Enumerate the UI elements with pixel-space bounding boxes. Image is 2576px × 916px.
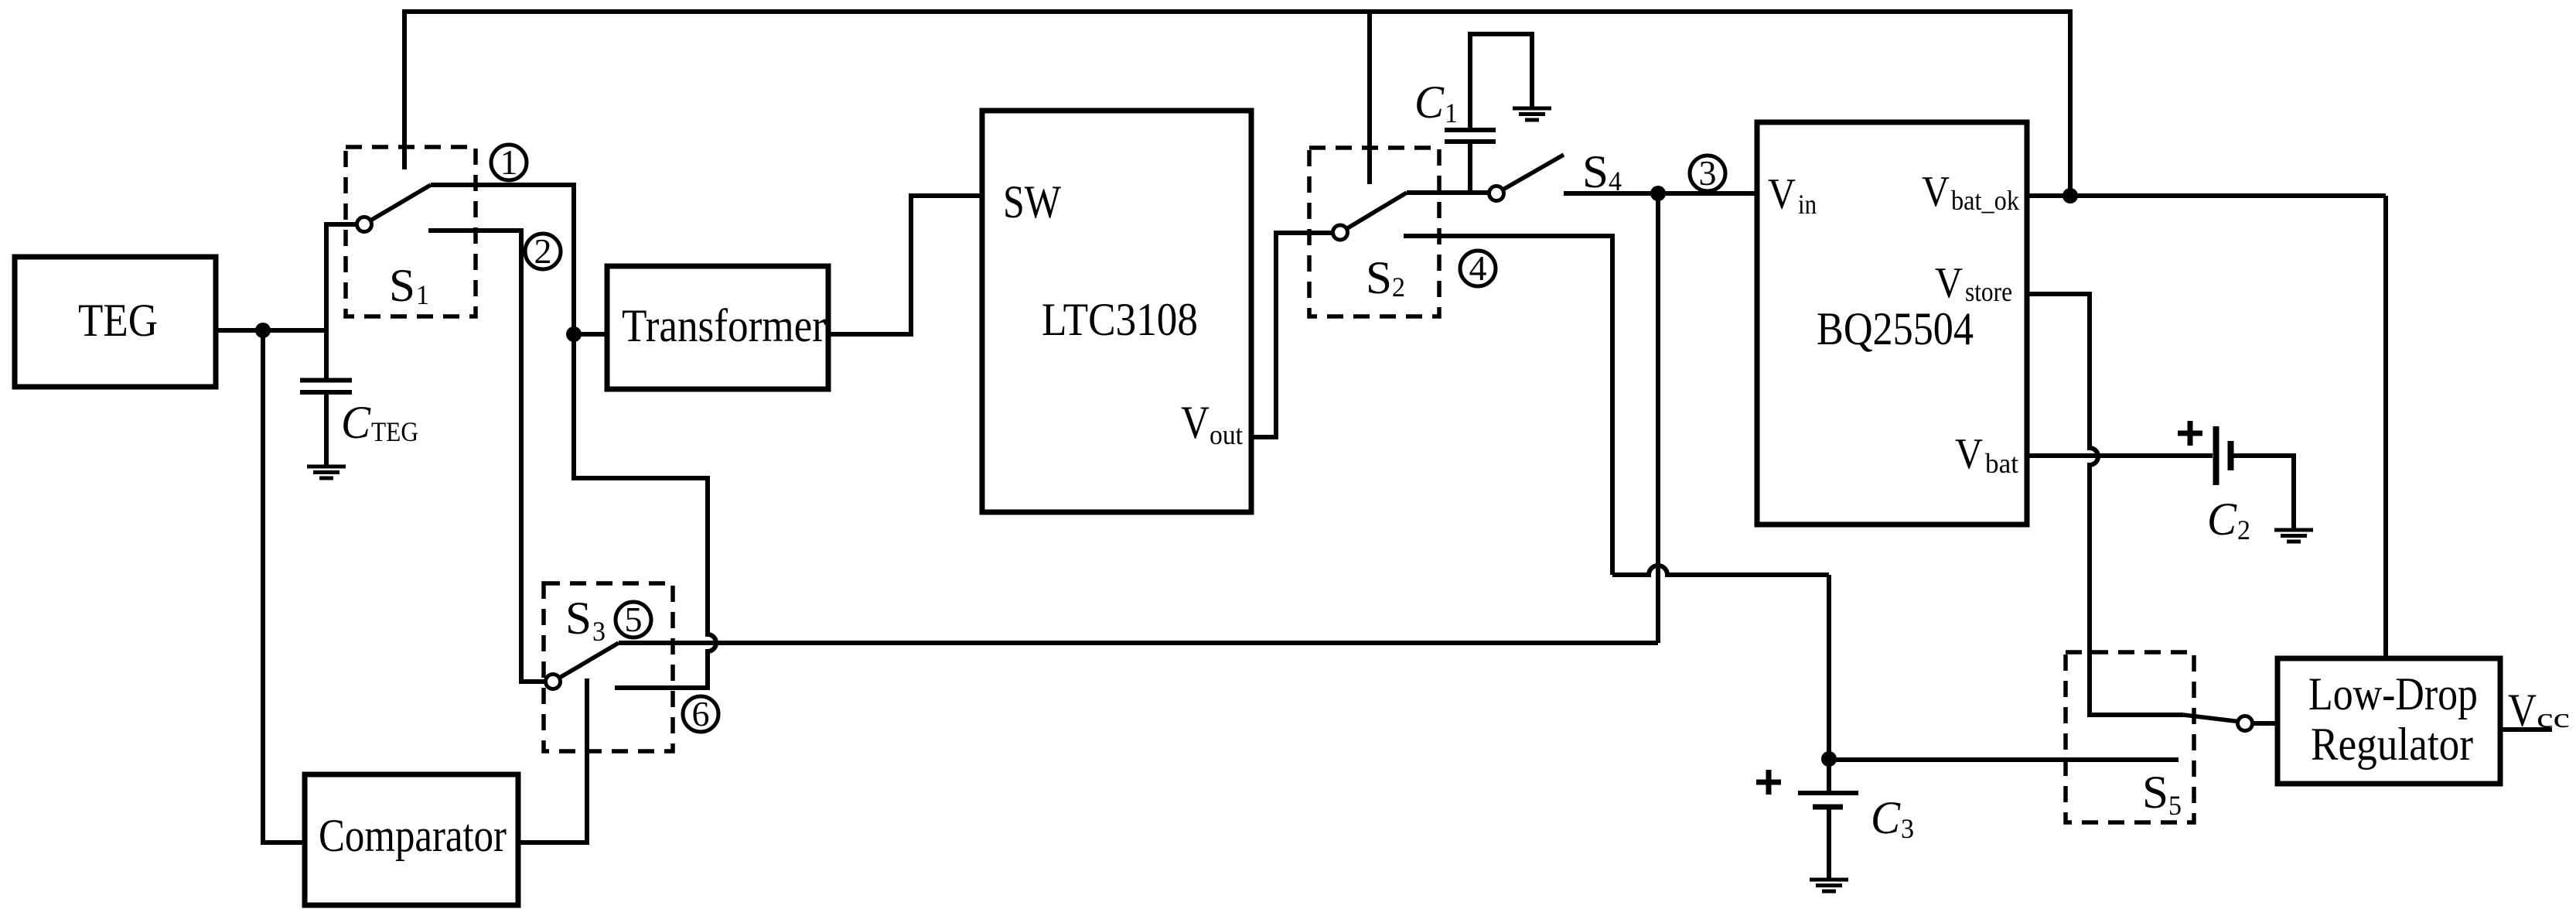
svg-text:V: V xyxy=(1181,397,1210,448)
node 6 circled xyxy=(683,694,718,733)
switch S1 dashed box xyxy=(346,147,476,316)
svg-text:2: 2 xyxy=(2237,514,2250,545)
svg-text:1: 1 xyxy=(500,142,518,182)
Comparator box xyxy=(305,774,518,905)
switch S4 arm xyxy=(1503,155,1564,190)
switch S5 dashed box xyxy=(2066,652,2194,822)
wire TEG node to Comparator input xyxy=(263,330,305,843)
wire node 3 riser and long throw-5 line to S3 xyxy=(619,193,1658,643)
node 1 circled xyxy=(491,142,527,182)
wire TEG output xyxy=(216,328,328,333)
wire Vout to S2 pole xyxy=(1251,233,1332,437)
svg-text:S: S xyxy=(389,260,415,311)
svg-text:3: 3 xyxy=(1699,153,1717,193)
wire S2 control stub from top rail xyxy=(1367,12,1372,184)
svg-text:S: S xyxy=(1582,146,1609,197)
capacitor C3 battery xyxy=(1798,791,1858,795)
svg-text:2: 2 xyxy=(534,231,552,271)
svg-text:Comparator: Comparator xyxy=(319,810,507,861)
op-amp U1 LTC3108 box xyxy=(982,111,1251,512)
svg-text:6: 6 xyxy=(692,694,710,733)
svg-text:cc: cc xyxy=(2537,702,2570,733)
switch S5 arm xyxy=(2183,715,2238,722)
ground C2 xyxy=(2274,530,2313,542)
switch S1 pole contact xyxy=(357,217,372,232)
wire Comparator output to S3 control xyxy=(518,678,587,843)
node C3 junction xyxy=(1821,751,1837,767)
svg-text:C: C xyxy=(2207,494,2237,545)
wire Vstore to S5 with hop over Vbat wire xyxy=(2027,294,2183,715)
node 4 circled xyxy=(1460,248,1496,288)
plus sign C2 xyxy=(2178,421,2202,446)
wire S1 throw 2 to S3 pole xyxy=(428,231,544,682)
switch S3 pole contact xyxy=(546,675,561,689)
svg-text:C: C xyxy=(1871,792,1901,843)
svg-text:store: store xyxy=(1965,276,2012,307)
node Transformer input junction xyxy=(566,326,582,342)
svg-text:4: 4 xyxy=(1469,248,1487,288)
wire S4 to BQ25504 Vin xyxy=(1564,191,1757,196)
node 2 circled xyxy=(525,231,561,271)
svg-text:V: V xyxy=(1922,168,1950,216)
svg-text:SW: SW xyxy=(1003,176,1061,227)
switch S5 contact xyxy=(2238,716,2253,731)
switch S3 dashed box xyxy=(544,583,673,751)
capacitor CTEG xyxy=(300,378,352,383)
svg-text:out: out xyxy=(1210,419,1243,450)
svg-text:V: V xyxy=(1955,430,1983,478)
svg-text:TEG: TEG xyxy=(371,416,418,447)
wire S1 throw 1 to Transformer input xyxy=(431,185,607,334)
svg-text:S: S xyxy=(1366,252,1392,303)
wire S5 to regulator input xyxy=(2253,721,2278,726)
switch S2 dashed box xyxy=(1309,148,1439,316)
wire S2 throw 2 to node 4 and C3 with hop over node3 wire xyxy=(1404,236,1612,575)
svg-text:S: S xyxy=(565,593,592,644)
capacitor C1 xyxy=(1468,144,1472,193)
svg-text:5: 5 xyxy=(2168,790,2182,821)
wire S2 throw 1 to S4 xyxy=(1407,190,1489,195)
svg-text:1: 1 xyxy=(1445,97,1458,128)
svg-text:in: in xyxy=(1798,189,1817,220)
svg-text:Transformer: Transformer xyxy=(622,300,826,351)
wire Vbat to battery C2 xyxy=(2027,453,2213,458)
svg-text:BQ25504: BQ25504 xyxy=(1817,303,1974,354)
svg-text:5: 5 xyxy=(625,600,643,639)
svg-text:Regulator: Regulator xyxy=(2311,719,2473,770)
IC BQ25504 box xyxy=(1757,122,2027,525)
TEG box xyxy=(15,257,216,387)
svg-text:3: 3 xyxy=(1901,813,1914,844)
node TEG output junction xyxy=(255,323,271,338)
svg-text:S: S xyxy=(2142,767,2168,818)
node 3 circled xyxy=(1690,153,1725,193)
svg-text:Low-Drop: Low-Drop xyxy=(2308,668,2478,719)
svg-text:C: C xyxy=(341,397,371,448)
svg-text:LTC3108: LTC3108 xyxy=(1042,294,1198,345)
svg-text:3: 3 xyxy=(592,616,606,647)
wire riser to S1 pole xyxy=(326,224,357,381)
regulator box Low-Drop Regulator xyxy=(2277,658,2500,784)
wire Vbat_ok to regulator xyxy=(2027,196,2386,658)
switch S4 contact xyxy=(1489,186,1504,201)
node Vbat_ok junction xyxy=(2063,188,2078,203)
svg-text:V: V xyxy=(1768,170,1796,218)
switch S2 arm xyxy=(1347,193,1407,229)
svg-text:TEG: TEG xyxy=(78,295,158,346)
wire S5 lower throw from C3 node xyxy=(1829,757,2179,762)
ground C1 xyxy=(1513,108,1551,120)
svg-text:bat: bat xyxy=(1985,448,2018,479)
svg-text:2: 2 xyxy=(1392,272,1405,302)
switch S1 arm xyxy=(370,185,431,220)
wire Transformer node to S3 throw 6 with hop xyxy=(574,334,716,688)
wire top rail from S1 control to Vbat_ok node xyxy=(404,12,2070,196)
switch S3 arm xyxy=(560,643,619,678)
wire Vcc output xyxy=(2500,727,2552,732)
node 5 circled xyxy=(616,600,651,639)
Transformer box xyxy=(607,266,828,389)
svg-text:V: V xyxy=(2508,685,2537,736)
svg-text:C: C xyxy=(1414,77,1445,128)
svg-text:1: 1 xyxy=(416,279,429,310)
ground CTEG xyxy=(307,467,346,478)
capacitor C2 battery xyxy=(2213,426,2219,485)
svg-text:bat_ok: bat_ok xyxy=(1951,185,2019,216)
plus sign C3 xyxy=(1756,770,1781,795)
wire Transformer output to LTC3108 SW xyxy=(828,196,982,334)
ground C3 xyxy=(1810,880,1848,891)
svg-text:V: V xyxy=(1935,259,1963,307)
switch S2 pole contact xyxy=(1333,225,1348,240)
node 3 junction xyxy=(1650,186,1666,201)
